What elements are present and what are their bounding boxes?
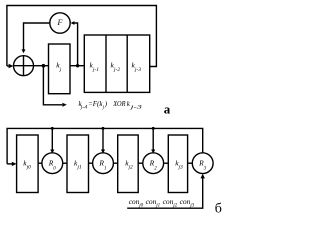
svg-text:R3: R3	[198, 158, 207, 171]
wire XOR to register kj	[34, 65, 49, 67]
node junction to F tap	[76, 64, 79, 67]
op R1 circle	[93, 153, 114, 174]
formula kj-4=F(kj) XOR kj-3	[79, 100, 143, 111]
svg-text:а: а	[164, 102, 171, 117]
register kj2 box	[118, 135, 139, 193]
wire kj2 to R2	[138, 162, 143, 164]
label con inputs	[129, 197, 195, 208]
svg-text:): )	[104, 100, 108, 108]
svg-text:kj0: kj0	[23, 159, 31, 171]
wire kj0 to R0	[38, 162, 42, 164]
wire F output to XOR top	[22, 23, 50, 53]
svg-text:kj-2: kj-2	[111, 61, 121, 73]
svg-text:kj2: kj2	[125, 159, 133, 171]
node bus tap R0	[51, 127, 54, 130]
wire arrow into register kj0	[7, 162, 17, 166]
wire top bus (part b)	[7, 128, 203, 164]
svg-text:б: б	[215, 202, 222, 217]
svg-text:kj: kj	[56, 61, 61, 73]
svg-text:j-3: j-3	[129, 106, 143, 111]
register kj box	[49, 44, 71, 94]
svg-text:kj-3: kj-3	[132, 61, 142, 73]
svg-text:con: con	[129, 197, 140, 206]
wire tap down into R2	[151, 128, 155, 153]
register kj1 box	[67, 135, 89, 193]
wire output tap down to formula	[43, 66, 66, 107]
svg-text:j2: j2	[172, 203, 177, 208]
svg-text:con: con	[163, 197, 174, 206]
svg-text:kj1: kj1	[74, 159, 82, 171]
svg-text:con: con	[146, 197, 157, 206]
svg-text:j3: j3	[189, 203, 194, 208]
wire R0 to kj1	[63, 162, 67, 164]
op F circle	[50, 13, 70, 33]
svg-text:XOR: XOR	[112, 100, 126, 108]
op R3 circle	[192, 153, 213, 174]
wire feedback loop (part a)	[7, 6, 157, 67]
wire R2 to kj3	[164, 162, 169, 164]
register group kj-1 kj-2 kj-3 box	[84, 35, 149, 92]
node bus tap R1	[102, 127, 105, 130]
svg-text:R0: R0	[48, 158, 57, 171]
register kj3 box	[168, 135, 187, 193]
wire kj3 to R3	[188, 162, 193, 164]
wire tap down into R1	[101, 128, 105, 153]
wire kj to kj-1	[70, 65, 84, 67]
op R2 circle	[143, 153, 164, 174]
svg-text:=F(k: =F(k	[88, 100, 103, 108]
XOR adder circle	[14, 56, 34, 76]
svg-text:j1: j1	[155, 203, 160, 208]
svg-text:j-4: j-4	[79, 106, 87, 111]
node junction to output tap	[42, 64, 46, 68]
wire R1 to kj2	[113, 162, 117, 164]
svg-text:kj3: kj3	[175, 159, 183, 171]
wire con bus up into R3	[127, 174, 205, 209]
op R0 circle	[42, 153, 63, 174]
svg-text:F: F	[57, 18, 63, 27]
svg-text:j0: j0	[138, 203, 143, 208]
svg-text:kj-1: kj-1	[90, 61, 100, 73]
register kj0 box	[17, 135, 38, 193]
wire tap up into F	[71, 21, 78, 66]
svg-text:con: con	[180, 197, 191, 206]
svg-text:R1: R1	[98, 158, 106, 171]
node bus tap R2	[152, 127, 155, 130]
wire kj1 to R1	[89, 162, 93, 164]
svg-text:R2: R2	[149, 158, 158, 171]
wire tap down into R0	[50, 128, 54, 153]
wire arrow into XOR left	[7, 64, 13, 68]
